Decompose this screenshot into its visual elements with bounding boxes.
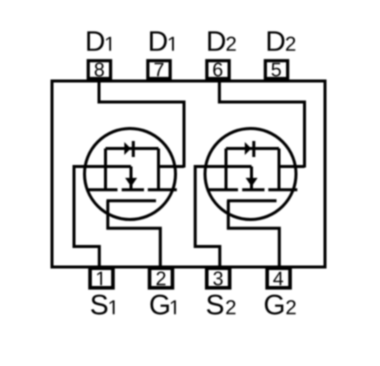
wire D1 net: pin 8 to Q1 drain rail — [99, 78, 184, 168]
label D1 over pin 7 — [150, 31, 174, 50]
pin 1 number — [97, 272, 102, 285]
pin 7 box — [148, 61, 170, 79]
pin 8 number — [95, 63, 104, 77]
label S2 under pin 3 — [207, 295, 236, 315]
Q2 body diode anode triangle — [245, 142, 252, 155]
wire G2 net: Q2 gate to pin 4 — [228, 201, 279, 267]
Q2 body vertical — [250, 167, 253, 190]
Q2 body diode cathode bar — [252, 141, 255, 157]
wire G1 net: Q1 gate to pin 2 — [108, 201, 161, 267]
pin 4 box — [267, 268, 290, 288]
pin 6 box — [207, 61, 229, 79]
pin 1 box — [90, 268, 113, 288]
label S1 under pin 1 — [91, 295, 114, 315]
pin 3 box — [207, 268, 230, 288]
Q2 gate electrode bar — [227, 199, 277, 202]
label D2 over pin 5 — [268, 31, 296, 50]
pin 2 box — [150, 268, 173, 288]
Q2 drain contact bar — [268, 188, 297, 191]
Q2 body-diode rail — [226, 147, 279, 150]
Q1 body-diode rail — [106, 147, 159, 150]
Q2 body contact bar — [242, 188, 264, 191]
wire S1 net: Q1 source rail to pin 1 — [74, 167, 131, 268]
Q2 source-side vertical — [225, 149, 228, 190]
Q1 drain rail — [159, 165, 185, 168]
Q1 body diode anode triangle — [124, 142, 131, 155]
pin 5 box — [265, 61, 287, 79]
label D1 over pin 8 — [87, 31, 111, 50]
Q1 body vertical — [130, 167, 133, 190]
pin 4 number — [273, 272, 283, 285]
Q1 body diode cathode bar — [132, 141, 135, 157]
pin 8 box — [88, 61, 110, 79]
Q2 body arrow — [246, 178, 258, 187]
label G1 under pin 2 — [150, 295, 175, 315]
Q1 source-side vertical — [104, 149, 107, 190]
label G2 under pin 4 — [265, 295, 296, 315]
transistor Q1 envelope circle — [85, 129, 176, 220]
Q1 body contact bar — [122, 188, 144, 191]
Q2 source contact bar — [209, 188, 238, 191]
wire D2 net: pin 6 to Q2 drain rail — [219, 78, 304, 168]
package outline — [52, 81, 325, 267]
Q1 drain contact bar — [148, 188, 177, 191]
label D2 over pin 6 — [208, 31, 235, 50]
transistor Q2 envelope circle — [205, 129, 296, 220]
Q1 source contact bar — [89, 188, 118, 191]
pin 6 number — [213, 63, 222, 77]
pin 5 number — [272, 63, 281, 77]
pin 3 number — [213, 272, 222, 286]
Q1 gate electrode bar — [107, 199, 157, 202]
Q2 drain rail — [279, 165, 305, 168]
pin 7 number — [155, 63, 164, 76]
Q2 drain-side vertical — [278, 149, 281, 190]
pin 2 number — [157, 272, 166, 286]
wire S2 net: Q2 source rail to pin 3 — [195, 167, 251, 268]
Q1 body arrow — [125, 178, 137, 187]
Q1 drain-side vertical — [157, 149, 160, 190]
